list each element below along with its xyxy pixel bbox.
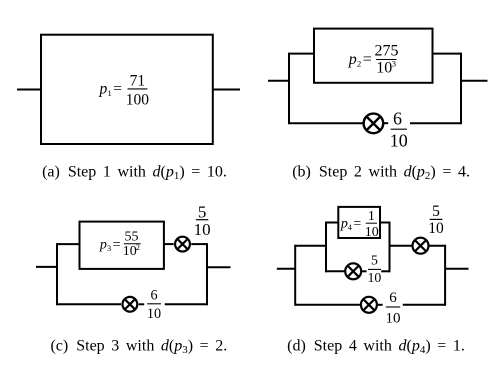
box p3 — [80, 222, 164, 269]
svg-text:10: 10 — [390, 130, 408, 150]
svg-text:=: = — [353, 217, 361, 232]
wire: bottom branch left of (d) — [295, 304, 360, 306]
wire: right stub of (c) — [207, 266, 231, 268]
wire: left vertical of (c) — [56, 243, 58, 305]
wire: right vertical of (b) — [460, 53, 462, 125]
svg-text:3: 3 — [107, 244, 111, 253]
box p4 — [338, 207, 380, 238]
wire: bottom branch left of (c) — [57, 303, 121, 305]
wire: bottom branch left of (b) — [289, 122, 364, 124]
wire: left stub of (a) — [17, 89, 41, 91]
fraction 5/10 of (d) inner bottom sub-branch — [368, 253, 382, 286]
multiplier (crossed circle) outer of (d) — [413, 238, 429, 254]
multiplier (crossed circle) inner of (d) — [345, 263, 361, 279]
wire: right stub of (d) — [445, 268, 468, 270]
svg-text:(d) Step 4 with d(p4) = 1.: (d) Step 4 with d(p4) = 1. — [287, 338, 465, 357]
box p1 — [41, 35, 213, 144]
svg-text:5: 5 — [432, 203, 440, 220]
wire: dash after inner multiplier of (d) — [362, 270, 367, 272]
wire: left stub of (b) — [268, 80, 289, 82]
svg-text:=: = — [113, 80, 122, 97]
wire: multiplier to right vertical of (c) — [191, 243, 207, 245]
svg-text:2: 2 — [357, 59, 361, 69]
wire: left vertical of (b) — [288, 53, 290, 125]
svg-text:10: 10 — [376, 60, 392, 77]
wire: top branch right of (b) — [433, 53, 462, 55]
svg-text:3: 3 — [392, 59, 396, 69]
svg-text:(c) Step 3 with d(p3) = 2.: (c) Step 3 with d(p3) = 2. — [50, 338, 227, 357]
wire: box to multiplier of (c) — [164, 243, 174, 245]
wire: outer multiplier to right vertical of (d) — [429, 245, 445, 247]
wire: inner right vertical of (d) — [389, 222, 391, 273]
multiplier (crossed circle) bottom of (c) — [122, 297, 137, 312]
svg-text:5: 5 — [198, 202, 207, 221]
wire: mid branch right of (d) — [390, 245, 412, 247]
wire: inner left vertical of (d) — [325, 222, 327, 273]
svg-text:6: 6 — [393, 109, 402, 129]
value label p4 = 1/10 — [340, 209, 379, 240]
wire: bottom branch right of (b) — [410, 122, 461, 124]
wire: left stub of (c) — [36, 266, 57, 268]
svg-text:p: p — [99, 237, 107, 252]
svg-text:10: 10 — [368, 270, 382, 285]
wire: inner top sub-branch right of (d) — [380, 222, 390, 224]
fraction 5/10 above outer multiplier of (d) — [428, 203, 444, 237]
wire: right stub of (b) — [461, 80, 488, 82]
wire: bottom branch right of (d) — [403, 304, 445, 306]
svg-text:1: 1 — [108, 88, 112, 98]
value label p3 = 55/10^2 — [99, 230, 141, 260]
wire: inner top sub-branch left of (d) — [326, 222, 338, 224]
svg-text:p: p — [340, 217, 348, 232]
value label p2 = 275/10^3 — [348, 42, 399, 76]
svg-text:(a) Step 1 with d(p1) = 10.: (a) Step 1 with d(p1) = 10. — [42, 164, 227, 183]
fraction 5/10 above top multiplier of (c) — [194, 202, 211, 239]
wire: outer left vertical of (d) — [294, 245, 296, 306]
wire: dash after multiplier of (b) — [383, 122, 388, 124]
wire: bottom branch right of (c) — [165, 303, 207, 305]
svg-text:6: 6 — [389, 290, 397, 306]
svg-text:(b) Step 2 with d(p2) = 4.: (b) Step 2 with d(p2) = 4. — [292, 164, 470, 183]
svg-text:4: 4 — [348, 223, 352, 232]
wire: left stub of (d) — [277, 268, 295, 270]
wire: mid branch left of (d) — [295, 245, 326, 247]
wire: outer right vertical of (d) — [444, 245, 446, 306]
wire: right vertical of (c) — [206, 243, 208, 305]
value label p1 = 71/100 — [99, 73, 150, 109]
svg-text:10: 10 — [147, 306, 161, 322]
wire: dash after bottom multiplier of (d) — [378, 304, 383, 306]
svg-text:1: 1 — [368, 209, 375, 224]
svg-text:10: 10 — [386, 310, 401, 326]
multiplier (crossed circle) top of (c) — [175, 237, 190, 252]
multiplier (crossed circle) of (b) — [364, 114, 384, 134]
svg-text:10: 10 — [428, 220, 444, 237]
svg-text:6: 6 — [150, 287, 157, 303]
wire: right stub of (a) — [213, 89, 240, 91]
multiplier (crossed circle) bottom of (d) — [361, 297, 377, 313]
svg-text:=: = — [363, 51, 372, 68]
fraction 6/10 of (c) bottom branch — [147, 287, 161, 322]
svg-text:10: 10 — [123, 244, 137, 259]
fraction 6/10 of (b) bottom branch — [390, 109, 408, 151]
box p2 — [314, 29, 433, 83]
wire: inner bottom sub-branch left of (d) — [326, 270, 344, 272]
svg-text:2: 2 — [136, 243, 140, 252]
svg-text:100: 100 — [126, 91, 150, 108]
svg-text:p: p — [99, 80, 108, 97]
svg-text:p: p — [348, 51, 357, 68]
svg-text:=: = — [113, 237, 121, 252]
wire: dash after bottom multiplier of (c) — [139, 303, 145, 305]
wire: top branch left of (c) — [57, 243, 80, 245]
svg-text:10: 10 — [365, 225, 379, 240]
wire: inner bottom sub-branch right of (d) — [381, 270, 389, 272]
wire: top branch left of (b) — [289, 53, 314, 55]
svg-text:5: 5 — [371, 253, 378, 268]
svg-text:10: 10 — [194, 220, 211, 239]
svg-text:275: 275 — [375, 42, 399, 59]
svg-text:71: 71 — [130, 73, 146, 90]
fraction 6/10 of (d) bottom branch — [386, 290, 401, 326]
